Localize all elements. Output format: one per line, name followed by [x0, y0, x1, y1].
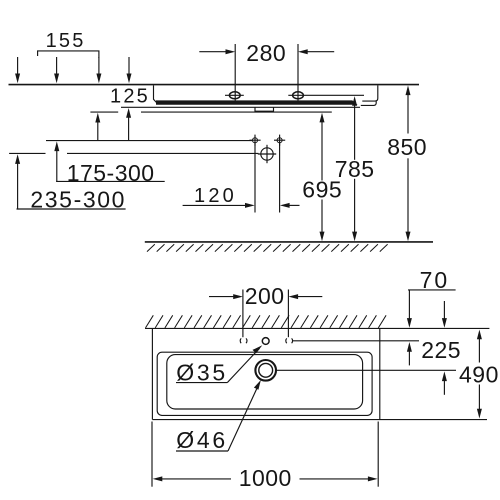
drain level line y=112 (right segment)	[141, 111, 332, 113]
down arrow a (x=17.6)	[15, 57, 20, 83]
dimension 280	[199, 40, 334, 101]
label Ø46 with leader	[176, 380, 261, 453]
dimension 850	[387, 85, 427, 241]
svg-text:70: 70	[420, 267, 450, 293]
svg-text:1000: 1000	[239, 465, 292, 491]
svg-text:490: 490	[459, 361, 499, 387]
svg-text:280: 280	[246, 40, 286, 66]
dimension 695	[302, 113, 342, 242]
extension line from hole 2	[279, 143, 281, 213]
up arrow to level line (x=56.8, 175-300)	[54, 141, 59, 181]
svg-text:850: 850	[387, 134, 427, 160]
optional tap hole left (dashed circle)	[240, 338, 247, 343]
dimension 225	[407, 337, 461, 395]
svg-text:200: 200	[245, 283, 285, 309]
central tap hole Ø35	[262, 338, 269, 345]
svg-text:155: 155	[46, 30, 86, 52]
floor line	[145, 241, 433, 243]
dimension 200	[209, 283, 322, 337]
up arrow to drain level (x=97.8, 155 pair)	[95, 113, 100, 141]
svg-text:125: 125	[110, 85, 150, 107]
svg-text:225: 225	[421, 337, 461, 363]
dimension 155 bracket	[38, 30, 99, 58]
level line y=140.6	[46, 140, 252, 142]
level line y=153.4 (left segment)	[9, 152, 45, 154]
dimension 125 text	[110, 85, 150, 107]
dimension 120	[183, 185, 300, 208]
drain hole Ø46 (concentric circles)	[255, 360, 276, 381]
top reference line (basin top level)	[9, 84, 420, 86]
svg-text:Ø46: Ø46	[176, 427, 228, 453]
svg-text:Ø35: Ø35	[176, 360, 228, 386]
extension line from hole 1	[254, 143, 256, 213]
mounting bar (thick black band)	[156, 100, 358, 104]
tap hole row extension line	[292, 340, 419, 342]
tap hole symbol right (ellipse) + 785 level line	[288, 92, 364, 99]
wall connection point 1 (cross circle)	[249, 135, 260, 146]
dimension 785	[335, 96, 375, 241]
basin slab outline	[152, 328, 487, 419]
drain tab under basin	[255, 107, 274, 111]
svg-text:120: 120	[194, 185, 237, 207]
bowl inner rim	[167, 355, 363, 409]
basin profile right edge with step	[361, 85, 378, 105]
drain center extension line	[276, 369, 456, 371]
floor hatching	[147, 244, 388, 251]
drain level line y=112 (left segment)	[90, 111, 118, 113]
up arrow to 153 line (x=17.6, 235-300)	[15, 154, 20, 209]
wall line	[145, 327, 489, 329]
wall hatching	[146, 315, 387, 328]
dimension 175-300	[56, 160, 165, 186]
dimension 70	[407, 267, 456, 328]
svg-text:235-300: 235-300	[30, 186, 126, 212]
basin profile left edge	[154, 85, 158, 103]
drain connection (large cross circle)	[258, 145, 276, 163]
up arrow to underside (x=128.6)	[126, 108, 131, 141]
dimension 490	[459, 330, 499, 419]
down arrow b (x=56.6)	[54, 57, 59, 83]
svg-text:785: 785	[335, 156, 375, 182]
label Ø35 with leader	[176, 345, 262, 385]
wall connection point 2 (cross circle)	[274, 135, 285, 146]
down arrow c (x=98.9, from 155 bracket)	[96, 57, 101, 83]
basin underside line y=107	[121, 106, 360, 108]
optional tap hole right (dashed circle)	[286, 338, 293, 343]
dimension 1000	[152, 422, 378, 491]
level line y=153.4 (right segment)	[67, 152, 259, 154]
down arrow d (x=129, 125 pair)	[127, 57, 132, 83]
dimension 235-300	[17, 186, 127, 212]
tap hole symbol left (ellipse)	[225, 92, 244, 99]
bowl outer rim	[157, 352, 372, 415]
